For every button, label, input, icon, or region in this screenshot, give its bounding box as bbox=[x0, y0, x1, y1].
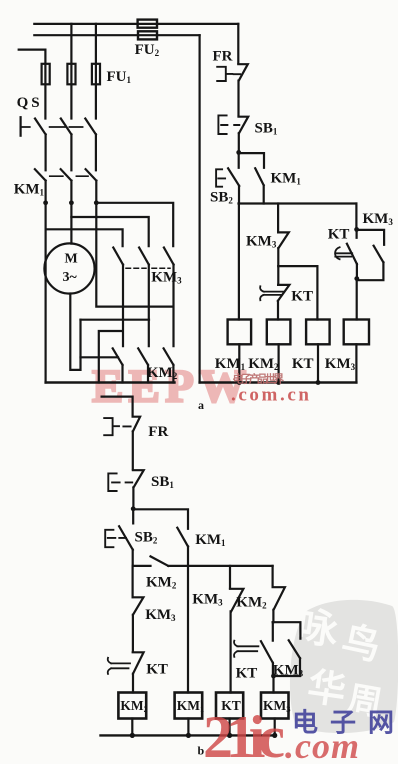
wire col4 b top bbox=[272, 566, 274, 587]
wire motor lead U1 bbox=[44, 203, 46, 383]
wire phase B drop bbox=[70, 24, 72, 119]
contact KM2 b aux (NO, horizontal) bbox=[151, 556, 169, 566]
wire KM2 pole1 to bus bbox=[121, 365, 123, 383]
wire node D to KM3 coil bbox=[356, 279, 358, 320]
motor M circle bbox=[44, 243, 94, 293]
wire branch KM3NC top bbox=[277, 204, 279, 233]
svg-text:华: 华 bbox=[305, 666, 348, 713]
wire KM1 pole1 to node bbox=[44, 181, 46, 203]
node D junction bbox=[354, 276, 359, 281]
switch QS pole3 arm bbox=[85, 119, 96, 135]
contactor KM2 main pole1 arm bbox=[113, 348, 123, 365]
node A junction bbox=[236, 150, 241, 155]
wire motor bottom lead V2 bbox=[70, 294, 80, 370]
contact KM3 aux NC bbox=[278, 232, 289, 248]
wire KM1 pole3 to node bbox=[95, 181, 97, 203]
switch QS pole2 arm bbox=[61, 119, 72, 135]
node L junction bbox=[227, 733, 232, 738]
node H junction bbox=[131, 506, 136, 511]
wire col4 b mid bbox=[272, 610, 274, 622]
wire cross link upper bbox=[81, 319, 150, 321]
node F junction bbox=[276, 380, 281, 385]
node W bbox=[94, 200, 99, 205]
wire KT b to coil KM2 bbox=[132, 674, 134, 693]
coil KT b bbox=[216, 693, 243, 719]
wire KM3 pole2 down bbox=[148, 265, 150, 347]
wire motor lead V1 bbox=[70, 203, 72, 244]
wire cross link mid bbox=[81, 356, 119, 358]
timer contact KT b NO delayed bbox=[261, 622, 273, 663]
svg-text:FR: FR bbox=[148, 424, 168, 440]
wire KM2 pole2 to bus bbox=[147, 365, 149, 383]
relay FR actuator bracket bbox=[217, 67, 240, 81]
contactor KM1 main linkage dashes bbox=[50, 175, 88, 177]
contactor KM3 main linkage dashes bbox=[126, 267, 170, 269]
wire node U tap to KM3 pole1 top bbox=[46, 229, 123, 246]
wire cross link lower bbox=[99, 331, 123, 383]
wire SB2 b down bbox=[132, 550, 134, 566]
svg-text:.com.cn: .com.cn bbox=[231, 385, 309, 406]
wire KM1 coil to bus bbox=[238, 344, 240, 382]
wire motor lead W1 bbox=[96, 203, 173, 307]
wire KM1 b branch top bbox=[133, 509, 188, 529]
relay contact FR (NC) bbox=[238, 64, 248, 80]
timer contact KT NO delayed bbox=[347, 229, 357, 264]
wire branch right top bbox=[355, 204, 357, 230]
node J junction bbox=[130, 733, 135, 738]
wire L1 to FR bbox=[237, 24, 239, 63]
contactor KM2 main pole2 arm bbox=[138, 348, 148, 365]
wire KT contact to KM2 coil bbox=[277, 301, 279, 320]
wire KM2 coil to bus bbox=[278, 344, 280, 382]
wire b right loop top bbox=[273, 622, 301, 639]
svg-text:3~: 3~ bbox=[63, 270, 78, 285]
node C junction bbox=[354, 227, 359, 232]
wire FR b to SB1 b bbox=[132, 431, 134, 469]
wire main bottom bus bbox=[46, 381, 175, 383]
svg-text:FR: FR bbox=[213, 49, 233, 65]
wire SB1 b to node H bbox=[132, 487, 134, 508]
button SB1 b (NC stop) bbox=[133, 470, 144, 487]
wire L3 stub bbox=[19, 50, 46, 119]
button SB1 bracket bbox=[218, 115, 239, 134]
contactor KM3 main pole2 arm bbox=[139, 248, 149, 265]
wire b row left bbox=[133, 565, 151, 567]
fuse FU1 pole 1 bbox=[42, 64, 50, 85]
svg-text:KT: KT bbox=[146, 662, 168, 678]
wire L1 bus bbox=[34, 23, 238, 25]
node U bbox=[43, 200, 48, 205]
wire KT coil to bus bbox=[317, 344, 319, 382]
wire KM3NC to node B bbox=[277, 248, 279, 266]
watermark gray stamp blob bbox=[290, 600, 398, 733]
fuse FU1 pole 2 bbox=[67, 64, 75, 85]
contact KM3 aux NO bbox=[374, 246, 384, 263]
coil KT bbox=[306, 320, 330, 345]
wire phase C drop bbox=[95, 24, 97, 119]
wire QS to KM1 pole3 bbox=[95, 134, 97, 170]
contact KM3 b NC interlock bbox=[133, 597, 144, 615]
timer contact KT NC delayed bbox=[278, 285, 290, 301]
contact KM3 b aux NO bbox=[289, 640, 300, 658]
svg-text:QS: QS bbox=[17, 95, 43, 111]
wire control bottom bus bbox=[200, 381, 357, 383]
wire b top stub bbox=[102, 397, 133, 417]
contactor KM1 main pole3 arm bbox=[86, 169, 97, 180]
wire KM3 coil to bus bbox=[355, 344, 357, 382]
button SB1 b bracket bbox=[108, 473, 132, 491]
contact KM3 b NC (col3) bbox=[230, 589, 243, 612]
fuse FU1 pole 3 bbox=[92, 64, 100, 85]
wire col1 b lower bbox=[132, 615, 134, 652]
node K junction bbox=[186, 733, 191, 738]
wire coil KM2 b to bus bbox=[131, 719, 133, 736]
svg-text:KT: KT bbox=[236, 666, 258, 682]
wire node W to KM3 pole3 top bbox=[96, 203, 173, 246]
switch QS pole1 arm bbox=[35, 119, 46, 135]
coil KM3 bbox=[344, 320, 369, 345]
contactor KM3 main pole3 arm bbox=[164, 248, 174, 265]
wire b row right bbox=[168, 565, 272, 567]
wire col3 b to coil KT bbox=[230, 611, 232, 692]
svg-text:21ic: 21ic bbox=[203, 704, 285, 764]
wire KM1 b branch down bbox=[187, 547, 189, 693]
button SB1 (NC stop) bbox=[239, 117, 249, 134]
node V bbox=[69, 200, 74, 205]
switch QS handle bar bbox=[20, 117, 22, 136]
coil KM2 bbox=[267, 320, 291, 345]
wire KT to node D bbox=[356, 264, 358, 279]
wire SB2 down bbox=[238, 186, 240, 204]
wire FR to SB1 bbox=[237, 81, 239, 116]
coil KM1 bbox=[228, 320, 252, 345]
wire control node row bbox=[239, 202, 357, 204]
wire QS to KM1 pole2 bbox=[70, 134, 72, 170]
svg-text:M: M bbox=[65, 252, 78, 267]
svg-text:KT: KT bbox=[292, 356, 314, 372]
wire node B to KT-coil branch bbox=[278, 266, 317, 319]
wire QS to KM1 pole1 bbox=[44, 134, 46, 170]
svg-text:·电子产品世界: ·电子产品世界 bbox=[232, 372, 284, 386]
wire right loop upper bbox=[357, 230, 385, 245]
WATERMARKS-FRONT bbox=[203, 372, 394, 764]
button SB2 (NO start) bbox=[228, 152, 239, 186]
node M junction bbox=[272, 733, 277, 738]
button SB2 bracket bbox=[216, 169, 225, 186]
wire node V tap to KM3 pole2 top bbox=[71, 217, 148, 246]
wire right loop lower bbox=[357, 262, 383, 280]
timer KT b delay flag bbox=[108, 658, 130, 674]
wire KM2 pole3 to bus bbox=[172, 365, 174, 383]
timer KT NO delay flag bbox=[335, 247, 352, 259]
wire coil KT b to bus bbox=[229, 719, 231, 736]
fuse FU2 (lower element) bbox=[138, 31, 157, 39]
wire KT b NO to node I bbox=[272, 663, 275, 693]
svg-text:电子网: 电子网 bbox=[292, 709, 394, 738]
button SB2 b (NO start) bbox=[119, 509, 133, 550]
svg-text:KT: KT bbox=[328, 227, 350, 243]
wire KM3 pole3 down bbox=[172, 265, 174, 347]
wire KM1 pole2 to node bbox=[70, 181, 72, 203]
timer KT b NO delay flag bbox=[234, 641, 258, 657]
svg-text:KT: KT bbox=[291, 289, 313, 305]
contactor KM2 main pole3 arm bbox=[164, 348, 174, 365]
wire control rail left bbox=[199, 35, 201, 382]
switch QS linkage dashes bbox=[22, 126, 83, 128]
svg-text:a: a bbox=[198, 398, 204, 412]
contact KM1 aux (NO self-hold) bbox=[239, 153, 264, 203]
wire b bottom bus bbox=[101, 734, 274, 736]
contact KM1 b aux (NO) bbox=[177, 528, 188, 547]
wire node B down bbox=[277, 266, 279, 285]
node G junction bbox=[316, 380, 321, 385]
wire col1 b mid bbox=[132, 566, 134, 597]
wire KM3 pole1 down bbox=[122, 265, 124, 347]
coil KM3 b bbox=[261, 693, 289, 719]
relay FR b bracket bbox=[104, 418, 130, 435]
contactor KM1 main pole1 arm bbox=[35, 169, 46, 180]
node E junction bbox=[237, 380, 242, 385]
node I junction bbox=[271, 674, 276, 679]
timer contact KT b NC delayed bbox=[133, 652, 144, 673]
wire b right loop bottom bbox=[274, 658, 301, 676]
wire L2 bus bbox=[34, 34, 199, 36]
coil KM2 b bbox=[118, 693, 146, 719]
WATERMARKS-BACK bbox=[92, 361, 398, 734]
button SB2 b bracket bbox=[105, 530, 126, 547]
wire branch KM1-coil bbox=[238, 204, 240, 320]
fuse FU2 (upper element) bbox=[138, 20, 157, 28]
wire coil KM3 b to bus bbox=[274, 719, 276, 736]
coil KM1 b bbox=[175, 693, 203, 719]
timer KT delay flag bbox=[260, 286, 283, 300]
contactor KM3 main pole1 arm bbox=[113, 248, 123, 265]
relay contact FR b (NC) bbox=[133, 417, 141, 432]
wire coil KM1 b to bus bbox=[187, 719, 189, 736]
wire col3 b top bbox=[229, 566, 231, 589]
contact KM2 b NC (col4) bbox=[273, 587, 285, 610]
svg-text:咏: 咏 bbox=[295, 603, 342, 653]
contactor KM1 main pole2 arm bbox=[61, 169, 72, 180]
wire SB1 to node A bbox=[238, 133, 240, 152]
